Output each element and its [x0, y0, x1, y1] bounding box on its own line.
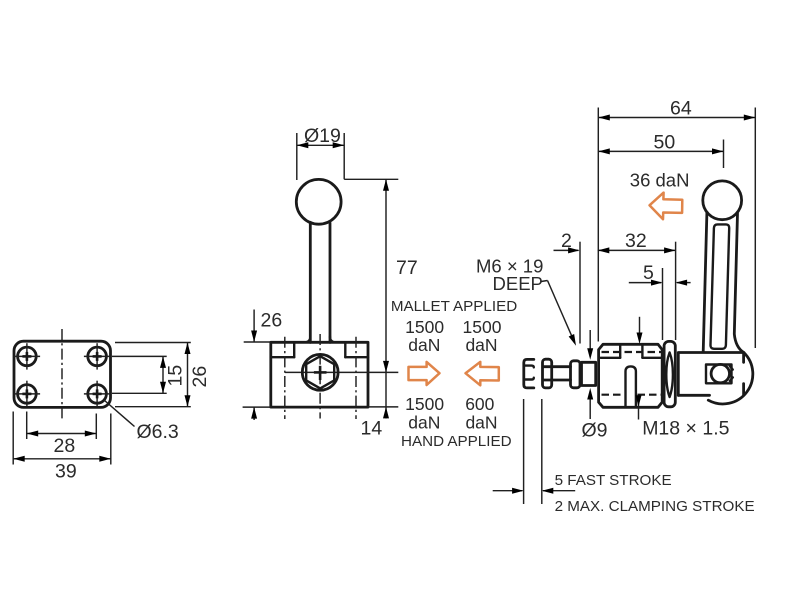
svg-text:daN: daN [465, 412, 497, 432]
orange arrow pointing left [466, 362, 499, 385]
dimension 5 nut [629, 262, 691, 340]
nut capsule side [664, 341, 675, 406]
label daN lower-right [465, 412, 497, 432]
orange arrow pointing right [409, 362, 440, 385]
label HAND APPLIED [401, 433, 512, 450]
reference line ball top [344, 178, 398, 180]
handle ball front [296, 179, 341, 224]
extension line 2 left [579, 242, 581, 344]
extension line 32 right [675, 242, 677, 340]
stroke extension line right [541, 399, 543, 504]
leader line for hole diameter [104, 400, 135, 427]
barrel slot [626, 366, 636, 407]
label 5 FAST STROKE [555, 472, 672, 489]
body notch right [345, 342, 368, 357]
mounting hole bottom-left [14, 381, 40, 407]
callout diameter 9 [582, 330, 608, 442]
svg-text:daN: daN [408, 335, 440, 355]
mounting hole bottom-right [84, 381, 110, 407]
svg-text:50: 50 [654, 132, 676, 154]
spindle shaft lines [544, 367, 571, 380]
svg-text:15: 15 [165, 365, 187, 387]
dimension diameter 19 [297, 125, 344, 180]
spindle hex head side [524, 359, 534, 388]
label 1500 upper-left [405, 317, 444, 337]
barrel hidden thread line top [602, 351, 662, 353]
svg-text:daN: daN [465, 335, 497, 355]
svg-text:77: 77 [396, 257, 418, 279]
label MALLET APPLIED [391, 298, 517, 315]
dimension 28 [27, 431, 97, 457]
barrel body M18 [599, 344, 663, 407]
stroke dimension arrows [493, 488, 576, 494]
lever rib [710, 224, 729, 348]
mounting hole top-right [84, 343, 110, 369]
dimension 77 [383, 179, 418, 372]
notch centerline right [355, 337, 357, 419]
dimension 26 body height [243, 309, 283, 420]
spindle collar [571, 361, 581, 388]
svg-text:32: 32 [625, 230, 647, 252]
head block [678, 353, 743, 396]
svg-text:M18 × 1.5: M18 × 1.5 [642, 418, 729, 440]
label DEEP [493, 273, 543, 294]
pivot pin circle [711, 364, 729, 382]
mounting hole top-left [14, 343, 40, 369]
retaining clip [730, 366, 733, 381]
dimension 64 [598, 97, 755, 120]
lever arm outline [703, 213, 744, 353]
svg-text:600: 600 [465, 394, 494, 414]
svg-text:26: 26 [261, 309, 283, 331]
svg-text:Ø6.3: Ø6.3 [137, 421, 179, 443]
svg-text:2 MAX. CLAMPING STROKE: 2 MAX. CLAMPING STROKE [555, 498, 755, 515]
dimension 50 [598, 132, 723, 155]
hex bore outer circle [302, 354, 338, 390]
leader M6 deep [541, 281, 579, 348]
dimension 26 plate height [185, 343, 212, 407]
dimension 32 [598, 230, 676, 254]
label 1500 lower-left [405, 394, 444, 414]
svg-text:DEEP: DEEP [493, 273, 543, 294]
barrel notch walls [620, 345, 642, 358]
barrel inner line top [601, 357, 662, 359]
center cross ticks [314, 366, 327, 380]
svg-text:14: 14 [361, 417, 383, 439]
svg-text:1500: 1500 [463, 317, 502, 337]
extension line 50 [723, 140, 725, 169]
hex socket [306, 356, 334, 388]
svg-text:1500: 1500 [405, 394, 444, 414]
svg-text:28: 28 [54, 435, 76, 457]
label M6 x 19 [476, 256, 543, 277]
svg-text:39: 39 [55, 461, 77, 483]
dimension 14 [361, 372, 399, 439]
extension line right 64 [754, 108, 756, 349]
notch centerline left [284, 337, 286, 419]
svg-text:1500: 1500 [405, 317, 444, 337]
extension lines bottom [13, 412, 111, 465]
spindle end block diameter 9 [582, 362, 596, 385]
svg-text:2: 2 [561, 230, 572, 252]
barrel hidden thread line bottom [602, 394, 662, 396]
label 2 MAX. CLAMPING STROKE [555, 498, 755, 515]
svg-text:36 daN: 36 daN [630, 169, 690, 190]
label diameter 6.3 [137, 421, 179, 443]
pivot boss arc [708, 353, 753, 404]
orange arrow 36 daN pointing left [650, 193, 683, 220]
svg-text:26: 26 [189, 366, 211, 388]
main vertical centerline [319, 334, 321, 419]
label 600 lower-right [465, 394, 494, 414]
label daN upper-left [408, 335, 440, 355]
spindle washer [543, 359, 552, 388]
base plate outline [14, 341, 111, 407]
handle ball side [703, 181, 742, 220]
svg-text:5 FAST STROKE: 5 FAST STROKE [555, 472, 672, 489]
stroke extension line left [523, 399, 525, 504]
callout M18 x 1.5 [636, 317, 730, 440]
svg-text:Ø9: Ø9 [582, 420, 608, 442]
svg-text:MALLET APPLIED: MALLET APPLIED [391, 298, 517, 315]
hex bore horizontal centerline [285, 371, 398, 373]
label 36 daN [630, 169, 690, 190]
label daN lower-left [408, 412, 440, 432]
extension lines right [112, 343, 191, 407]
dimension 39 [13, 456, 111, 483]
label 1500 upper-right [463, 317, 502, 337]
svg-text:daN: daN [408, 412, 440, 432]
svg-text:Ø19: Ø19 [304, 125, 341, 147]
clamp body block [271, 342, 368, 407]
body notch left [271, 342, 294, 357]
dimension 15 [160, 356, 187, 393]
extension line left (barrel edge) [597, 108, 599, 342]
dimension 2 [554, 230, 580, 253]
svg-text:HAND APPLIED: HAND APPLIED [401, 433, 512, 450]
svg-text:5: 5 [643, 262, 654, 284]
pivot slot rect [706, 365, 732, 384]
label daN upper-right [465, 335, 497, 355]
handle stem [306, 222, 335, 342]
svg-text:64: 64 [670, 97, 692, 119]
plate vertical centerline [61, 329, 63, 421]
